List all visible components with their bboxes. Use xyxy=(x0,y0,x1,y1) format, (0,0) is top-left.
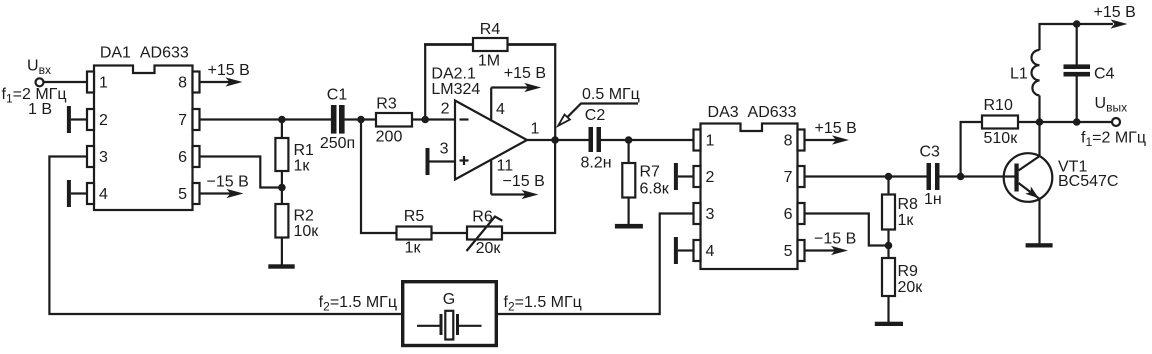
DA1 pin 1 stub xyxy=(87,72,94,93)
wire pin4 xyxy=(71,192,87,194)
svg-text:+15 В: +15 В xyxy=(1094,4,1136,21)
svg-text:L1: L1 xyxy=(1010,66,1028,83)
+15V power arrow at DA1 pin8 xyxy=(200,81,231,83)
wire pin2 xyxy=(71,118,87,120)
svg-text:C4: C4 xyxy=(1094,66,1115,83)
ground under R7 xyxy=(615,224,643,229)
+15V power arrow at op-amp pin 4 xyxy=(491,86,528,88)
svg-text:−15 В: −15 В xyxy=(503,173,545,190)
resistor R7 xyxy=(622,163,635,198)
wire L1 top and rail xyxy=(1040,24,1114,122)
input terminal Uвх xyxy=(36,78,44,86)
svg-text:1 В: 1 В xyxy=(28,101,52,118)
annotation arrowhead xyxy=(558,115,570,126)
svg-text:3: 3 xyxy=(706,206,715,223)
DA3 pin 3 stub xyxy=(694,203,701,224)
wire DA3 pin2 xyxy=(678,175,694,177)
DA1 pin 8 stub xyxy=(193,72,200,93)
transistor VT1 circle xyxy=(1004,153,1053,202)
resistor R8 xyxy=(882,195,895,230)
resistor R5 xyxy=(397,227,432,240)
svg-text:20к: 20к xyxy=(898,279,924,296)
DA1 pin 6 stub xyxy=(193,146,200,167)
wire R4 feedback loop xyxy=(425,45,555,141)
collector vertical xyxy=(1038,122,1040,156)
wire op-amp pin 11 supply xyxy=(490,155,492,195)
DA1 pin 7 stub xyxy=(193,109,200,130)
ground bar at DA3 pin2 xyxy=(674,163,678,190)
svg-text:1: 1 xyxy=(531,121,540,138)
ground bar at DA3 pin4 xyxy=(674,237,678,264)
resistor R3 xyxy=(376,113,412,127)
svg-text:R4: R4 xyxy=(480,21,501,38)
DA3 pin 4 stub xyxy=(694,240,701,261)
wire input to DA1 pin1 xyxy=(44,81,88,83)
wire R1 R2 chain xyxy=(281,120,283,266)
wire DA3 pin4 xyxy=(678,249,694,251)
svg-text:200: 200 xyxy=(376,129,403,146)
R6 trimmer arrow xyxy=(467,217,503,252)
wire opamp pin3 xyxy=(430,160,456,162)
svg-text:1к: 1к xyxy=(898,212,915,229)
svg-text:8: 8 xyxy=(784,133,793,150)
ground bar at DA1 pin2 xyxy=(67,106,71,133)
svg-text:7: 7 xyxy=(784,169,793,186)
op-amp DA2.1 triangle xyxy=(455,101,527,180)
capacitor C3 xyxy=(931,169,935,184)
svg-text:11: 11 xyxy=(497,158,514,175)
emitter diagonal xyxy=(1019,183,1040,199)
-15V power arrow at op-amp pin 11 xyxy=(491,193,525,195)
svg-text:2: 2 xyxy=(99,112,108,129)
svg-text:+15 В: +15 В xyxy=(208,62,250,79)
wire net C: DA3 pin7 - C3 - base xyxy=(805,175,1015,177)
svg-text:−15 В: −15 В xyxy=(814,231,856,248)
ground bar at DA1 pin4 xyxy=(67,180,71,207)
svg-text:f2=1.5 МГц: f2=1.5 МГц xyxy=(504,294,582,314)
svg-text:1к: 1к xyxy=(405,240,422,257)
resistor R4 xyxy=(473,38,508,51)
collector diagonal xyxy=(1019,156,1040,170)
DA3 pin 7 stub xyxy=(798,166,805,187)
wire R10 branch xyxy=(961,122,1040,177)
svg-text:+15 В: +15 В xyxy=(815,120,857,137)
svg-text:R7: R7 xyxy=(640,164,661,181)
-15V power arrow at DA1 pin5 xyxy=(200,192,232,194)
node R8 top xyxy=(885,173,893,181)
svg-text:3: 3 xyxy=(440,141,449,158)
wire DA1 pin6 jog xyxy=(200,157,282,188)
resistor R2 xyxy=(275,204,288,238)
capacitor C2 xyxy=(593,132,598,148)
svg-text:1: 1 xyxy=(706,133,715,150)
svg-text:C1: C1 xyxy=(327,87,348,104)
ground bar at opamp pin3 xyxy=(426,148,430,175)
svg-text:BC547C: BC547C xyxy=(1058,173,1118,190)
svg-text:4: 4 xyxy=(99,186,108,203)
resistor R1 xyxy=(275,138,288,171)
-15V power arrow at DA3 pin5 xyxy=(805,249,836,251)
node R1-R2 xyxy=(278,184,286,192)
node R1 top xyxy=(278,116,286,124)
svg-text:f2=1.5 МГц: f2=1.5 МГц xyxy=(319,294,397,314)
base bar xyxy=(1014,164,1018,192)
generator G box xyxy=(403,282,497,346)
svg-text:R8: R8 xyxy=(898,196,919,213)
ground under R2 xyxy=(268,264,294,268)
svg-text:10к: 10к xyxy=(294,223,320,240)
svg-text:G: G xyxy=(443,291,455,308)
node R3-R4-pin2 xyxy=(421,116,429,124)
emitter arrowhead xyxy=(1025,186,1039,198)
svg-text:4: 4 xyxy=(496,101,505,118)
wire op-amp pin 4 supply xyxy=(490,88,492,126)
DA3 pin 5 stub xyxy=(798,240,805,261)
DA1 notch xyxy=(134,64,154,67)
svg-text:8: 8 xyxy=(178,75,187,92)
node C3 base R10 xyxy=(957,173,965,181)
svg-text:0.5 МГц: 0.5 МГц xyxy=(582,86,640,103)
svg-text:6: 6 xyxy=(178,149,187,166)
emitter vertical xyxy=(1038,199,1040,244)
svg-text:R1: R1 xyxy=(294,142,315,159)
svg-text:4: 4 xyxy=(706,243,715,260)
svg-text:R10: R10 xyxy=(984,97,1013,114)
svg-text:R3: R3 xyxy=(376,96,397,113)
svg-text:−15 В: −15 В xyxy=(207,174,249,191)
wire DA3 pin6 jog xyxy=(805,214,889,246)
svg-text:1M: 1M xyxy=(478,53,500,70)
svg-text:510к: 510к xyxy=(984,130,1019,147)
generator wire right: G to DA3 pin3 xyxy=(496,214,694,315)
DA3 pin 2 stub xyxy=(694,166,701,187)
DA3 notch xyxy=(742,122,762,125)
resistor R6 variable xyxy=(467,227,502,240)
svg-text:1н: 1н xyxy=(924,191,942,208)
node collector xyxy=(1036,118,1044,126)
node C1-R5 xyxy=(357,116,365,124)
wire net B: opamp out - C2 - DA3 pin1 xyxy=(527,139,694,141)
output terminal Uвых xyxy=(1112,118,1120,126)
DA3 pin 8 stub xyxy=(798,130,805,151)
node C4 bottom xyxy=(1073,118,1081,126)
node C2-R7 xyxy=(625,136,633,144)
plus sign xyxy=(460,159,469,161)
wire DA1 pin3 to generator G xyxy=(49,157,403,315)
ground under R9 xyxy=(875,322,903,326)
DA3 pin 6 stub xyxy=(798,203,805,224)
wire C2 node to R7 and ground xyxy=(627,140,629,225)
svg-text:R2: R2 xyxy=(294,208,315,225)
node top rail C4 xyxy=(1073,20,1081,28)
capacitor C4 xyxy=(1076,24,1078,65)
IC DA1 body xyxy=(94,66,193,211)
DA1 pin 4 stub xyxy=(87,183,94,204)
annotation leader line 0.5 МГц xyxy=(568,104,639,118)
svg-text:LM324: LM324 xyxy=(431,81,480,98)
DA1 pin 2 stub xyxy=(87,109,94,130)
svg-text:DA1 AD633: DA1 AD633 xyxy=(100,45,189,62)
svg-text:R9: R9 xyxy=(898,263,919,280)
wire R8 R9 chain xyxy=(887,177,889,323)
svg-text:DA2.1: DA2.1 xyxy=(431,66,476,83)
+15V power arrow top right xyxy=(1111,19,1128,28)
IC DA3 body xyxy=(701,124,798,270)
wire net A: DA1 pin7 - C1 - R3 - opamp pin2 xyxy=(200,118,456,120)
crystal resonator symbol inside G xyxy=(417,325,441,327)
svg-text:+15 В: +15 В xyxy=(504,65,546,82)
minus sign xyxy=(460,118,469,120)
svg-text:R6: R6 xyxy=(472,209,493,226)
svg-text:5: 5 xyxy=(178,186,187,203)
svg-text:250п: 250п xyxy=(320,135,355,152)
DA1 pin 5 stub xyxy=(193,183,200,204)
+15V power arrow at DA3 pin8 xyxy=(805,139,837,141)
svg-text:1: 1 xyxy=(99,75,108,92)
capacitor C1 xyxy=(336,112,339,127)
svg-text:6: 6 xyxy=(784,206,793,223)
wire R5 R6 feedback loop xyxy=(361,120,555,234)
svg-text:6.8к: 6.8к xyxy=(640,181,670,198)
svg-text:2: 2 xyxy=(441,101,450,118)
resistor R10 xyxy=(982,116,1018,129)
node opamp output xyxy=(551,136,559,144)
svg-text:2: 2 xyxy=(706,169,715,186)
svg-text:20к: 20к xyxy=(476,240,502,257)
svg-text:3: 3 xyxy=(99,149,108,166)
inductor L1 xyxy=(1032,50,1040,96)
node R8-R9 xyxy=(885,242,893,250)
wire net D: collector line to output xyxy=(1040,121,1113,123)
svg-text:8.2н: 8.2н xyxy=(580,155,611,172)
svg-text:1к: 1к xyxy=(294,158,311,175)
svg-text:5: 5 xyxy=(784,243,793,260)
svg-text:R5: R5 xyxy=(404,208,425,225)
resistor R9 xyxy=(882,258,895,296)
DA1 pin 3 stub xyxy=(87,146,94,167)
svg-text:C2: C2 xyxy=(585,107,606,124)
svg-text:DA3 AD633: DA3 AD633 xyxy=(708,104,797,121)
ground under emitter xyxy=(1026,243,1053,247)
svg-text:C3: C3 xyxy=(920,144,941,161)
svg-text:7: 7 xyxy=(178,112,187,129)
DA3 pin 1 stub xyxy=(694,130,701,151)
